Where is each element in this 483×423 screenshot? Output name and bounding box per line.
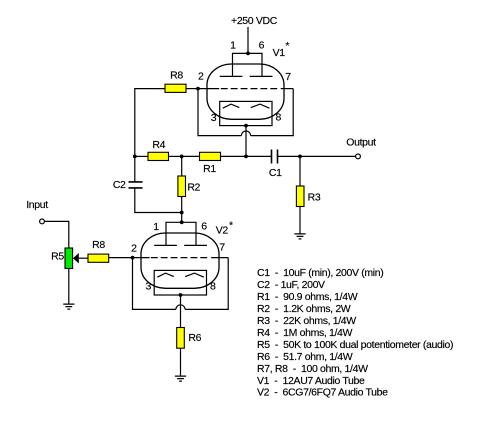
- wire V2 cathode to R6: [180, 295, 182, 328]
- wire R6 to ground: [180, 348, 182, 376]
- svg-text:1: 1: [230, 39, 236, 51]
- V2 grid wire solid right pin 7: [211, 257, 228, 259]
- node V1 cathode junction: [244, 124, 248, 128]
- node row left junction: [133, 155, 137, 159]
- wire R8 top to V1 grid: [186, 88, 198, 90]
- V2 grid dashed line: [151, 257, 208, 259]
- svg-text:8: 8: [276, 111, 282, 123]
- svg-text:R4: R4: [152, 139, 165, 151]
- wire to output terminal: [300, 155, 356, 157]
- wire junction to C1: [246, 155, 272, 157]
- svg-text:R1 - 90.9 ohms, 1/4W: R1 - 90.9 ohms, 1/4W: [257, 291, 358, 303]
- svg-text:R6 - 51.7 ohm, 1/4W: R6 - 51.7 ohm, 1/4W: [257, 351, 353, 363]
- wire V2 grid feedback loop with hop: [133, 258, 229, 310]
- capacitor C1 plates: [272, 150, 278, 164]
- svg-text:R2 - 1.2K ohms, 2W: R2 - 1.2K ohms, 2W: [257, 303, 351, 315]
- svg-text:Input: Input: [26, 199, 48, 211]
- node V1 grid junction: [196, 87, 200, 91]
- wire junction to V2 plate tie: [181, 213, 183, 223]
- tube V1 envelope: [207, 64, 284, 119]
- svg-text:V2 - 6CG7/6FQ7 Audio Tube: V2 - 6CG7/6FQ7 Audio Tube: [257, 387, 388, 399]
- V2 plate tie bar pins 1-6: [166, 222, 196, 245]
- svg-text:2: 2: [198, 71, 204, 83]
- wire R1 to cathode junction: [221, 155, 247, 157]
- svg-text:R8: R8: [170, 70, 183, 82]
- svg-text:R2: R2: [187, 181, 200, 193]
- tube V2 envelope: [141, 233, 219, 288]
- wire R8 bottom to V2 grid: [109, 257, 133, 259]
- wire input to R5: [44, 221, 68, 248]
- svg-text:R3: R3: [308, 192, 321, 204]
- wire V1 cathode down to row: [245, 126, 247, 157]
- wire V1 grid feedback loop with hop: [198, 89, 293, 136]
- svg-text:7: 7: [219, 242, 225, 254]
- node output junction: [298, 155, 302, 159]
- wire junction to R1: [182, 155, 200, 157]
- svg-text:C1: C1: [269, 167, 282, 179]
- resistor R1 body: [200, 152, 221, 160]
- svg-text:R1: R1: [203, 163, 216, 175]
- resistor R2 body: [178, 176, 186, 197]
- R5 wiper arrow: [73, 253, 79, 264]
- svg-text:+250 VDC: +250 VDC: [231, 15, 278, 27]
- ground R6: [175, 376, 186, 381]
- resistor R3 body: [296, 186, 304, 207]
- svg-text:V1 - 12AU7 Audio Tube: V1 - 12AU7 Audio Tube: [257, 375, 365, 387]
- wire R2 top junction down: [181, 156, 183, 176]
- V1 cathode chevrons: [223, 104, 270, 108]
- V1 cathode box pins 3-8: [220, 101, 272, 125]
- node V1 cathode row junction: [244, 155, 248, 159]
- wire R2 to C2 junction: [181, 197, 183, 213]
- svg-text:R5 - 50K to 100K dual potent: R5 - 50K to 100K dual potentiometer (aud…: [257, 339, 453, 351]
- V1 grid dashed line: [221, 88, 277, 90]
- V2 anode plates: [154, 244, 207, 246]
- resistor R8 top body: [165, 84, 186, 92]
- wire row junction down to C2: [134, 156, 136, 182]
- resistor R8 bottom body: [88, 254, 109, 262]
- wire wiper to R8 bottom: [79, 257, 88, 259]
- node R2 top junction: [180, 155, 184, 159]
- svg-text:R5: R5: [51, 251, 64, 263]
- svg-text:C2 - 1uF, 200V: C2 - 1uF, 200V: [257, 279, 325, 291]
- svg-text:R3 - 22K ohms, 1/4W: R3 - 22K ohms, 1/4W: [257, 315, 356, 327]
- output terminal circle: [356, 154, 361, 159]
- svg-text:V2: V2: [216, 224, 229, 236]
- svg-text:C2: C2: [113, 179, 126, 191]
- svg-text:*: *: [285, 40, 289, 52]
- V2 cathode chevrons: [157, 273, 204, 277]
- wire supply to V1 plate tie: [247, 27, 249, 53]
- node V2 plate tie junction: [180, 220, 184, 224]
- resistor R6 body: [177, 328, 185, 349]
- svg-text:Output: Output: [346, 137, 376, 149]
- svg-text:7: 7: [285, 71, 291, 83]
- svg-text:8: 8: [210, 281, 216, 293]
- svg-text:3: 3: [145, 281, 151, 293]
- potentiometer R5 body: [65, 248, 73, 269]
- V1 grid wire solid left pin 2: [198, 88, 219, 90]
- node V2 cathode junction: [179, 293, 183, 297]
- ground R5: [63, 304, 74, 309]
- node V2 grid junction: [131, 256, 135, 260]
- wire R4 to R2 junction: [169, 155, 182, 157]
- svg-text:R6: R6: [188, 332, 201, 344]
- svg-text:R4 - 1M ohms, 1/4W: R4 - 1M ohms, 1/4W: [257, 327, 353, 339]
- V2 cathode box pins 3-8: [154, 270, 206, 295]
- svg-text:2: 2: [131, 243, 137, 255]
- svg-text:R7, R8 - 100 ohm, 1/4W: R7, R8 - 100 ohm, 1/4W: [257, 363, 368, 375]
- V1 anode plates: [220, 75, 273, 77]
- node C2-R2 junction: [180, 211, 184, 215]
- resistor R4 body: [148, 152, 169, 160]
- svg-text:R8: R8: [92, 239, 105, 251]
- parts list: [257, 267, 453, 399]
- node V1 plate tie junction: [246, 52, 250, 56]
- capacitor C2 plates: [129, 182, 143, 188]
- V1 plate tie bar pins 1-6: [233, 53, 263, 76]
- wire C2 to V2 plate junction: [135, 188, 182, 213]
- svg-text:C1 - 10uF (min), 200V (min): C1 - 10uF (min), 200V (min): [257, 267, 383, 279]
- wire row to R4: [135, 155, 148, 157]
- wire C1 to output junction: [278, 155, 301, 157]
- svg-text:3: 3: [211, 112, 217, 124]
- wire R3 to ground: [299, 207, 301, 234]
- ground R3: [294, 234, 305, 239]
- wire left riser top: [135, 89, 165, 157]
- svg-text:6: 6: [259, 39, 265, 51]
- wire output junction to R3: [299, 156, 301, 186]
- svg-text:*: *: [229, 219, 233, 231]
- V2 grid wire solid left pin 2: [133, 257, 150, 259]
- svg-text:V1: V1: [273, 47, 286, 59]
- svg-text:6: 6: [201, 221, 207, 233]
- wire R5 to ground: [68, 269, 70, 305]
- svg-text:1: 1: [153, 221, 159, 233]
- input terminal circle: [40, 219, 45, 224]
- V1 grid wire solid right pin 7: [281, 88, 294, 90]
